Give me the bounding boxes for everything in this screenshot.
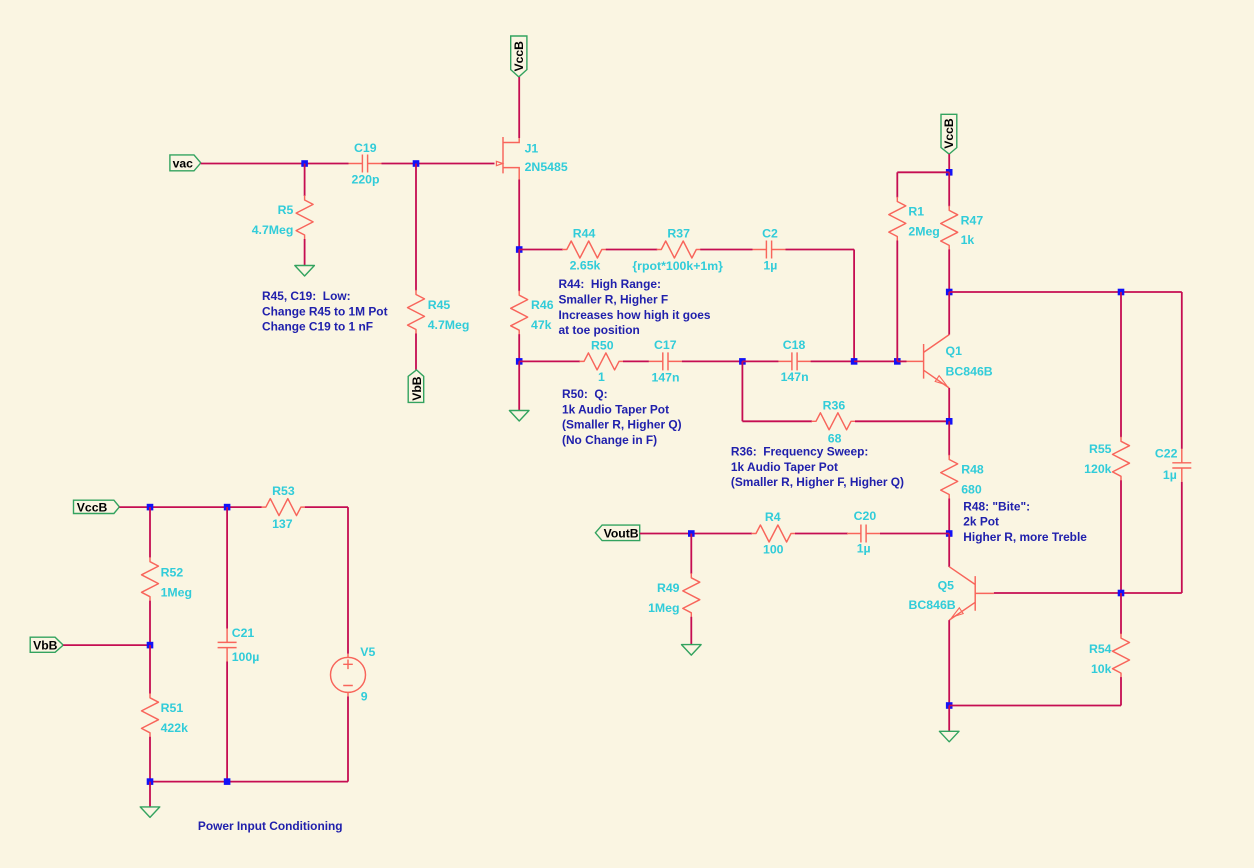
svg-text:47k: 47k [531,318,552,332]
junction node R49 top [688,530,695,537]
svg-text:R49: R49 [657,581,680,595]
svg-text:120k: 120k [1084,462,1112,476]
wire [606,249,658,251]
wire [811,360,854,362]
svg-text:1: 1 [598,370,605,384]
resistor R44 [563,241,606,258]
wire [305,506,348,508]
svg-text:Q5: Q5 [938,578,955,592]
svg-text:VccB: VccB [77,500,108,514]
capacitor C22 [1172,449,1191,482]
ground below Q5 [939,731,959,742]
svg-text:R45, C19: Low:: R45, C19: Low: [262,289,351,303]
svg-text:Power Input Conditioning: Power Input Conditioning [198,819,343,833]
resistor R45 [408,291,425,334]
svg-text:R51: R51 [161,701,184,715]
svg-text:Increases how high it goes: Increases how high it goes [559,308,711,322]
wire R46 to row2 [518,334,520,361]
wire to ground [948,706,950,732]
wire down to R36 [741,361,743,421]
wire down to V5 [347,507,349,654]
wire [742,360,778,362]
wire VccB to R53 [119,506,262,508]
svg-text:R48: R48 [961,463,984,477]
wire VbB to node [63,644,150,646]
svg-text:100µ: 100µ [232,650,260,664]
svg-text:1Meg: 1Meg [161,585,192,599]
svg-text:C19: C19 [354,141,377,155]
svg-text:Higher R, more Treble: Higher R, more Treble [963,530,1087,544]
svg-text:R1: R1 [908,205,924,219]
resistor R55 [1113,437,1130,480]
svg-text:9: 9 [361,689,368,703]
capacitor C18 [778,352,811,370]
ground power block [140,807,160,818]
svg-text:R53: R53 [272,484,295,498]
svg-text:R5: R5 [278,203,294,217]
wire row2 to ground [518,361,520,410]
wire to R52 [149,507,151,558]
wire [854,360,897,362]
wire to ground [149,782,151,807]
svg-text:R52: R52 [161,566,184,580]
resistor R1 [889,198,906,241]
capacitor C2 [753,241,786,259]
wire [700,249,752,251]
resistor R5 [296,196,313,239]
resistor R53 [262,499,305,516]
svg-text:R37: R37 [667,227,690,241]
svg-text:C21: C21 [232,626,255,640]
svg-text:4.7Meg: 4.7Meg [252,223,294,237]
wire to R48 [948,421,950,455]
wire R52 to VbB node [149,601,151,645]
junction node C18 left [739,358,746,365]
svg-text:J1: J1 [525,141,539,155]
voltage source V5 [331,654,366,697]
wire VccB to node [948,154,950,172]
svg-text:VbB: VbB [410,376,424,401]
wire Q1 collector [948,292,950,335]
resistor R46 [511,291,528,334]
junction node VbB [147,642,154,649]
svg-text:1µ: 1µ [1163,468,1177,482]
wire collector node to right rail [949,291,1182,293]
bottom rail [150,781,348,783]
resistor R52 [142,558,159,601]
svg-text:vac: vac [173,156,194,170]
junction node row1 left [516,246,523,253]
svg-text:Change R45 to 1M Pot: Change R45 to 1M Pot [262,304,388,318]
svg-text:BC846B: BC846B [909,598,956,612]
junction node VccB right [946,169,953,176]
resistor R47 [941,206,958,249]
svg-text:at toe position: at toe position [559,323,640,337]
wire to R5 [304,164,306,197]
ground below R49 [682,645,702,656]
ground below row2 [509,411,529,422]
svg-text:R36: R36 [823,399,846,413]
svg-text:220p: 220p [352,173,380,187]
svg-text:(Smaller R, Higher F, Higher Q: (Smaller R, Higher F, Higher Q) [731,475,904,489]
resistor R37 [657,241,700,258]
net flag VbB left [30,637,63,653]
svg-text:C18: C18 [783,338,806,352]
net flag VccB bottom left [74,500,120,514]
svg-text:R54: R54 [1089,642,1112,656]
resistor R48 [941,456,958,499]
ground below R5 [295,266,315,277]
junction node R54 top [1118,590,1125,597]
resistor R36 [812,413,855,430]
wire [897,171,949,173]
wire R47 to collector node [948,249,950,292]
wire R54 bottom [1120,677,1122,705]
junction node row2 C2 branch [851,358,858,365]
wire to R55 [1120,292,1122,437]
svg-text:R36: Frequency Sweep:: R36: Frequency Sweep: [731,445,868,459]
junction node R55 top [1118,289,1125,296]
svg-text:680: 680 [961,482,982,496]
junction node bottom left [147,778,154,785]
svg-text:R55: R55 [1089,442,1112,456]
svg-text:2Meg: 2Meg [908,224,939,238]
wire [795,533,848,535]
net flag VccB right [941,114,957,154]
wire R49 to ground [690,617,692,645]
wire to R51 [149,645,151,694]
junction node C21 top [224,504,231,511]
svg-text:1µ: 1µ [857,542,871,556]
resistor R49 [683,574,700,617]
transistor Q5 BC846B (mirrored) [949,567,994,620]
svg-text:100: 100 [763,543,784,557]
svg-text:147n: 147n [652,370,680,384]
svg-text:10k: 10k [1091,662,1112,676]
wire vac to C19 [201,163,349,165]
wire J1 source down [518,180,520,250]
wire Q5 collector [948,534,950,567]
svg-text:R44: R44 [573,227,596,241]
resistor R4 [752,525,795,542]
svg-text:VccB: VccB [942,118,956,149]
capacitor C19 [349,155,382,173]
wire [519,249,563,251]
wire V5 to bottom rail [347,696,349,781]
wire R51 to bottom rail [149,737,151,782]
wire R48 to C20 row [948,499,950,534]
svg-text:1µ: 1µ [763,259,777,273]
wire to C21 [226,507,228,628]
svg-text:1k: 1k [961,233,975,247]
resistor R50 [580,353,623,370]
wire Q1 emitter [948,388,950,421]
capacitor C17 [649,352,682,370]
junction node R45 top [413,160,420,167]
wire R45 to VbB flag [415,334,417,370]
wire [742,420,812,422]
wire to C22 [1181,292,1183,449]
svg-text:2k Pot: 2k Pot [963,515,999,529]
svg-text:R50: Q:: R50: Q: [562,387,608,401]
wire R5 to ground [304,239,306,266]
wire corner down to row2 [853,250,855,362]
wire Q5 emitter down [948,620,950,705]
net flag VbB below R45 [408,370,424,403]
net flag VoutB [595,525,639,541]
svg-text:C2: C2 [762,227,778,241]
svg-text:VccB: VccB [512,41,526,72]
junction node R52 top [147,504,154,511]
wire to R45 [415,164,417,291]
net flag vac [170,155,201,171]
svg-text:422k: 422k [161,721,189,735]
svg-text:R46: R46 [531,298,554,312]
svg-text:C17: C17 [654,338,677,352]
wire VccB to J1 drain [518,77,520,138]
wire to R54 [1120,593,1122,634]
wire to Q1 base [897,360,906,362]
transistor Q1 BC846B [907,335,950,388]
wire to R47 [948,172,950,206]
wire C22 down [1181,482,1183,593]
svg-text:{rpot*100k+1m}: {rpot*100k+1m} [632,259,723,273]
wire emitter row to R54 [949,705,1121,707]
svg-text:1k Audio Taper Pot: 1k Audio Taper Pot [562,402,669,416]
wire Q5 base to right rail [994,592,1182,594]
wire [880,533,949,535]
svg-text:C22: C22 [1155,446,1178,460]
svg-text:R50: R50 [591,338,614,352]
wire C19 to J1 gate [382,163,495,165]
svg-text:147n: 147n [781,370,809,384]
resistor R51 [142,694,159,737]
svg-text:(No Change in F): (No Change in F) [562,433,657,447]
wire to R46 [518,250,520,292]
junction node row2 left [516,358,523,365]
capacitor C20 [847,525,880,543]
svg-text:R4: R4 [765,510,781,524]
capacitor C21 [218,629,237,662]
junction node R5 top [301,160,308,167]
svg-text:2N5485: 2N5485 [525,160,568,174]
svg-text:R47: R47 [961,213,984,227]
svg-text:R44: High Range:: R44: High Range: [559,277,661,291]
wire [519,360,580,362]
junction node Q1 emitter / R36 [946,418,953,425]
svg-text:VbB: VbB [33,639,58,653]
svg-text:Change C19 to 1 nF: Change C19 to 1 nF [262,320,373,334]
junction node C21 bottom [224,778,231,785]
wire [623,360,649,362]
wire R55 to bottom rail [1120,480,1122,593]
svg-text:68: 68 [828,431,842,445]
wire to R49 [690,534,692,574]
resistor R54 [1113,634,1130,677]
junction node Q5 emitter [946,702,953,709]
svg-text:1Meg: 1Meg [648,601,679,615]
svg-text:Smaller R, Higher F: Smaller R, Higher F [559,292,669,306]
wire to R1 [896,172,898,197]
junction node row2 R1 branch [894,358,901,365]
junction node Q1 collector [946,289,953,296]
wire R36 to Q1 emitter node [855,420,949,422]
net flag VccB top [511,36,527,77]
wire R1 to row2 [896,241,898,362]
svg-text:C20: C20 [854,509,877,523]
wire VoutB to R4 [640,533,752,535]
svg-text:1k Audio Taper Pot: 1k Audio Taper Pot [731,460,838,474]
svg-text:BC846B: BC846B [946,364,993,378]
svg-text:2.65k: 2.65k [570,259,601,273]
wire C21 down [226,662,228,782]
wire [682,360,743,362]
JFET J1 2N5485 [496,137,519,180]
wire C2 to corner [786,249,855,251]
junction node R48 bottom [946,530,953,537]
svg-text:137: 137 [272,517,293,531]
svg-text:VoutB: VoutB [604,527,639,541]
svg-text:4.7Meg: 4.7Meg [428,318,470,332]
svg-text:Q1: Q1 [946,344,963,358]
svg-text:R48: "Bite":: R48: "Bite": [963,500,1030,514]
svg-text:R45: R45 [428,298,451,312]
svg-text:V5: V5 [360,645,375,659]
svg-text:(Smaller R, Higher Q): (Smaller R, Higher Q) [562,418,682,432]
